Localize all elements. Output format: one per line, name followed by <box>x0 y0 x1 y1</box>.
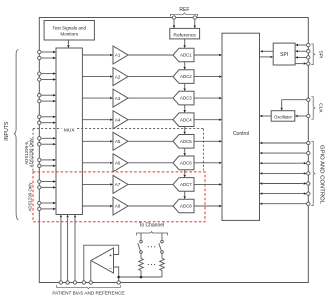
INPUTS brace and label <box>4 50 19 221</box>
input pin IN1P (ch1) <box>38 50 56 53</box>
wire ADC1 to control <box>194 54 222 56</box>
wire A5 to ADC5 <box>128 140 173 142</box>
adc block ADC7 <box>173 178 194 192</box>
wire bias pin 1 to mux <box>60 215 62 281</box>
svg-text:A6: A6 <box>115 161 121 166</box>
gpio/control pin 6 <box>260 192 310 195</box>
spi pin CS <box>295 50 310 53</box>
spi pin DIN <box>295 56 310 59</box>
pga amplifier A3 <box>113 89 128 107</box>
wire VREFN to reference <box>194 19 196 28</box>
svg-text:Control: Control <box>233 131 249 137</box>
switch S2 <box>159 233 164 253</box>
gpio/control pin 4 <box>260 172 310 175</box>
pga amplifier A1 <box>113 46 128 64</box>
GPIO AND CONTROL bracket and label <box>311 142 324 206</box>
input pin IN8P (ch8) <box>38 201 56 204</box>
wire output node to resistors <box>119 276 162 278</box>
svg-text:Reference: Reference <box>173 32 196 38</box>
patient bias pin 1 <box>59 281 62 284</box>
pga amplifier A2 <box>113 68 128 86</box>
pin VREFN <box>193 16 196 19</box>
adc block ADC1 <box>173 48 194 62</box>
dashed region ADS1299-6/ADS1299 only (ch5-6) <box>33 129 204 172</box>
wire mux to A7 <box>82 183 113 185</box>
chip outer border <box>39 18 308 283</box>
wire ADC4 to ADC5 (ref chain) <box>184 127 186 135</box>
wire oscillator to control <box>260 115 272 117</box>
wire A3 to ADC3 <box>128 97 173 99</box>
label ADS1299-6, ADS1299 Only <box>24 137 34 167</box>
reference block <box>170 28 200 39</box>
svg-text:ADC6: ADC6 <box>180 160 192 165</box>
wire ADC6 to control <box>194 162 222 164</box>
wire bias pin 3 to mux <box>74 215 76 281</box>
svg-text:GPIO AND CONTROL: GPIO AND CONTROL <box>318 145 324 205</box>
mux <box>56 48 82 215</box>
svg-text:SPI: SPI <box>280 52 288 58</box>
svg-text:ADC2: ADC2 <box>180 74 192 79</box>
patient bias pin 5 <box>89 281 92 284</box>
wire clk out pin to oscillator top <box>281 98 310 111</box>
wire noninverting input <box>84 245 119 281</box>
pga amplifier A8 <box>113 197 128 215</box>
patient bias brace <box>57 285 121 288</box>
wire ADC2 to ADC3 (ref chain) <box>184 83 186 91</box>
To Channel bracket <box>137 232 168 236</box>
wire mux to A2 <box>82 75 113 77</box>
svg-text:−: − <box>109 266 112 272</box>
svg-text:A5: A5 <box>115 139 121 144</box>
svg-text:A1: A1 <box>115 53 121 58</box>
svg-text:ADC1: ADC1 <box>180 53 192 58</box>
control block <box>222 33 260 220</box>
svg-text:A2: A2 <box>115 74 121 79</box>
pga amplifier A5 <box>113 132 128 150</box>
CLK pin-group bracket and label <box>311 97 323 120</box>
input pin IN5N (ch5) <box>38 143 56 146</box>
adc block ADC8 <box>173 199 194 213</box>
pga amplifier A4 <box>113 111 128 129</box>
spi block <box>273 43 295 65</box>
bias output pin <box>117 281 120 284</box>
wire mux to A3 <box>82 97 113 99</box>
input pin IN7N (ch7) <box>38 186 56 189</box>
wire inverting input to output node <box>114 267 119 281</box>
svg-text:INPUTS: INPUTS <box>4 121 10 141</box>
svg-text:+: + <box>109 253 112 259</box>
svg-text:A8: A8 <box>115 204 121 209</box>
svg-text:ADC3: ADC3 <box>180 96 192 101</box>
svg-text:ADC5: ADC5 <box>180 139 192 144</box>
wire A6 to ADC6 <box>128 162 173 164</box>
patient bias pin 2 <box>66 281 69 284</box>
wire ADC7 to ADC8 (ref chain) <box>184 191 186 199</box>
spi pin SCLK <box>295 43 310 46</box>
wire ADC2 to control <box>194 75 222 77</box>
wire mux to A8 <box>82 205 113 207</box>
input pin IN7P (ch7) <box>38 180 56 183</box>
wire ADC4 to control <box>194 119 222 121</box>
wire ADC3 to control <box>194 97 222 99</box>
resistor R2 <box>160 253 165 277</box>
adc block ADC5 <box>173 135 194 149</box>
svg-text:Monitors: Monitors <box>60 31 78 36</box>
svg-text:A7: A7 <box>115 182 121 187</box>
wire bias pin 2 to mux <box>66 215 68 281</box>
svg-text:Oscillator: Oscillator <box>274 115 292 120</box>
oscillator block <box>271 111 295 122</box>
bias op-amp <box>91 248 114 273</box>
wire A8 to ADC8 <box>128 205 173 207</box>
ellipsis between switches <box>148 246 156 247</box>
input pin IN3P (ch3) <box>38 94 56 97</box>
gpio/control pin 3 <box>260 162 310 165</box>
mux label <box>62 126 78 134</box>
PATIENT BIAS AND REFERENCE label <box>52 290 124 295</box>
wire ADC6 to ADC7 (ref chain) <box>184 170 186 178</box>
svg-text:MUX: MUX <box>64 127 75 133</box>
patient bias pin 3 <box>73 281 76 284</box>
input pin IN8N (ch8) <box>38 207 56 210</box>
input pin IN2N (ch2) <box>38 78 56 81</box>
wire ADC5 to control <box>194 140 222 142</box>
wire clk pin to oscillator <box>295 114 310 117</box>
wire ADC5 to ADC6 (ref chain) <box>184 148 186 156</box>
input pin IN4P (ch4) <box>38 115 56 118</box>
svg-text:ADS1299 Only: ADS1299 Only <box>27 182 32 212</box>
gpio/control pin 1 <box>260 141 310 144</box>
input pin IN6N (ch6) <box>38 164 56 167</box>
resistor R1 <box>139 253 144 277</box>
wire A2 to ADC2 <box>128 76 173 78</box>
wire mux to A6 <box>82 162 113 164</box>
input pin IN6P (ch6) <box>38 158 56 161</box>
pga amplifier A7 <box>113 175 128 193</box>
wire test box to mux <box>67 40 69 48</box>
adc block ADC3 <box>173 91 194 105</box>
wire A7 to ADC7 <box>128 183 173 185</box>
patient bias pin 4 <box>82 281 85 284</box>
pin VREFP <box>172 16 175 19</box>
svg-text:To Channel: To Channel <box>139 223 164 229</box>
wire ADC8 to control <box>194 205 222 207</box>
adc block ADC2 <box>173 70 194 84</box>
svg-text:ADC7: ADC7 <box>180 182 192 187</box>
input pin IN4N (ch4) <box>38 121 56 124</box>
adc block ADC4 <box>173 113 194 127</box>
wire A4 to ADC4 <box>128 119 173 121</box>
test signals and monitors box <box>44 21 94 41</box>
To Channel label <box>139 223 164 229</box>
label ADS1299 Only <box>27 182 32 212</box>
svg-text:ADS1299 Only: ADS1299 Only <box>28 137 33 167</box>
input pin IN3N (ch3) <box>38 99 56 102</box>
wire control to spi <box>260 56 274 58</box>
input pin IN2P (ch2) <box>38 72 56 75</box>
gpio/control pin 7 <box>260 202 310 205</box>
wire mux to A4 <box>82 119 113 121</box>
svg-text:PATIENT BIAS AND REFERENCE: PATIENT BIAS AND REFERENCE <box>52 290 124 295</box>
wire A1 to ADC1 <box>128 54 173 56</box>
SPI pin-group bracket and label <box>311 44 323 65</box>
wire mux to A5 <box>82 140 113 142</box>
gpio/control pin 5 <box>260 182 310 185</box>
wire ADC3 to ADC4 (ref chain) <box>184 105 186 113</box>
wire reference to ADC1 <box>184 39 186 48</box>
adc block ADC6 <box>173 156 194 170</box>
svg-text:REF: REF <box>179 7 189 13</box>
input pin IN5P (ch5) <box>38 137 56 140</box>
svg-text:ADC4: ADC4 <box>180 117 192 122</box>
REF brace <box>170 13 197 17</box>
input pin IN1N (ch1) <box>38 56 56 59</box>
ellipsis between resistors <box>148 264 156 265</box>
wire mux to A1 <box>82 54 113 56</box>
spi pin DOUT <box>295 62 310 65</box>
svg-text:Test Signals and: Test Signals and <box>52 25 86 30</box>
wire VREFP to reference <box>173 19 175 28</box>
junction resistor 1 bottom <box>140 276 143 279</box>
gpio/control pin 2 <box>260 151 310 154</box>
svg-text:A3: A3 <box>115 96 121 101</box>
wire ADC1 to ADC2 (ref chain) <box>184 62 186 70</box>
REF label <box>179 7 189 13</box>
wire ADC7 to control <box>194 183 222 185</box>
red dashed region ADS1299 only (ch7-8) <box>33 172 205 222</box>
svg-text:SPI: SPI <box>318 50 324 58</box>
wire op-amp output to pin <box>90 261 92 281</box>
junction output node <box>117 276 120 279</box>
svg-text:ADC8: ADC8 <box>180 204 192 209</box>
switch S1 <box>138 233 143 253</box>
wire spi to control <box>260 50 273 52</box>
svg-text:A4: A4 <box>115 117 121 122</box>
svg-text:CLK: CLK <box>318 103 324 113</box>
pga amplifier A6 <box>113 154 128 172</box>
